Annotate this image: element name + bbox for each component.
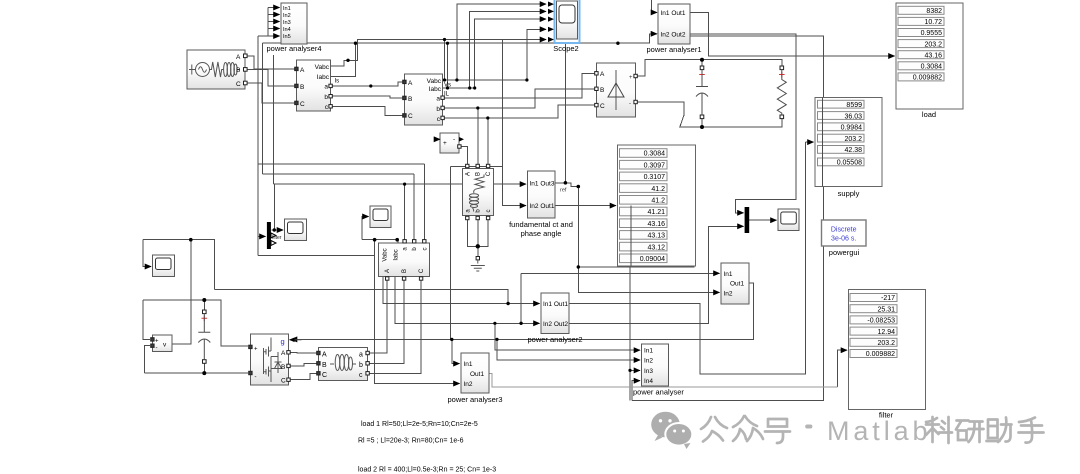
svg-text:43.12: 43.12: [647, 244, 665, 251]
mid display (10 rows): [618, 145, 696, 266]
wire fundamental Out1 to display: [555, 205, 616, 207]
svg-text:powergui: powergui: [829, 248, 860, 257]
svg-text:In1 Out1: In1 Out1: [543, 301, 568, 308]
demux filter: [267, 222, 282, 249]
svg-text:A: A: [408, 80, 413, 87]
wire pa2 Out1 to y374 line: [569, 304, 709, 375]
svg-text:In2: In2: [283, 13, 291, 19]
load display: [896, 3, 963, 119]
three-phase source: [187, 50, 247, 89]
middle dot: [807, 425, 810, 429]
wire h-line y184 to fundamental In1: [273, 183, 526, 185]
svg-text:8599: 8599: [846, 102, 862, 109]
svg-text:41.2: 41.2: [651, 198, 665, 205]
svg-text:In2 Out2: In2 Out2: [661, 32, 686, 39]
svg-text:43.16: 43.16: [647, 221, 665, 228]
power analyser1: [646, 4, 701, 54]
svg-text:Vabc: Vabc: [427, 78, 442, 85]
wire filter display feeder: [838, 350, 847, 387]
svg-text:43.13: 43.13: [647, 233, 665, 240]
three-phase V-I measurement 1: [295, 60, 339, 111]
svg-text:0.09004: 0.09004: [640, 256, 665, 263]
wire pa2 In2 line: [395, 277, 540, 323]
wire source A to meas1 A: [245, 56, 296, 69]
svg-text:b: b: [436, 106, 440, 113]
wire meas3 a riser: [404, 184, 406, 242]
svg-text:+: +: [629, 75, 633, 81]
wire vertical x565: [564, 0, 566, 183]
wire meas2 IL to Scope2 In2: [443, 11, 546, 88]
wire meas1 a (Is) to meas2 A: [332, 82, 404, 86]
wire h-line y174: [263, 173, 415, 175]
svg-text:In3: In3: [644, 368, 653, 375]
wire h-line y255: [258, 255, 375, 257]
capacitor branch (DC bus): [696, 66, 708, 119]
svg-text:In1: In1: [644, 348, 653, 355]
svg-text:41.2: 41.2: [651, 186, 665, 193]
wire igbt C to inductor C: [289, 373, 318, 379]
wire vertical x258 In5 feeder: [257, 36, 259, 256]
wire IL stub to bus: [447, 43, 449, 88]
svg-text:25.31: 25.31: [877, 306, 895, 313]
wire IL branch to Scope2 In3: [470, 19, 546, 88]
wire pa3 In2 feeder: [375, 240, 460, 384]
wire pa3 In1 feeder: [452, 339, 460, 363]
wire supply display feeder: [709, 142, 806, 374]
power analyser3: [447, 353, 502, 404]
char hao: [765, 419, 790, 443]
svg-text:3e-06 s.: 3e-06 s.: [831, 236, 856, 243]
svg-text:C: C: [236, 81, 241, 88]
powergui: [822, 220, 867, 257]
wire meas1 b to meas2 B: [332, 96, 404, 98]
wire pa4in In1 feeder: [495, 323, 640, 350]
wire subsystem In1 feeder: [521, 272, 719, 274]
three-phase V-I measurement 2: [403, 74, 451, 125]
svg-text:c: c: [359, 372, 363, 379]
svg-text:power analyser: power analyser: [633, 388, 684, 397]
power analyser (4 inputs): [633, 344, 684, 397]
wire stub In3 pa4: [268, 21, 280, 23]
svg-text:C: C: [486, 171, 492, 176]
wire cap2 bottom stub: [203, 363, 205, 373]
svg-text:Iabc: Iabc: [317, 74, 330, 81]
svg-text:0.3084: 0.3084: [921, 64, 943, 71]
three-phase series RL branch: [317, 348, 370, 381]
char zhu: [987, 418, 1012, 443]
wire demux input stub: [258, 235, 266, 237]
wire overlay across supply display: [822, 98, 824, 187]
svg-text:203.2: 203.2: [844, 136, 862, 143]
svg-text:Out1: Out1: [470, 371, 484, 378]
power analyser4: [266, 3, 321, 53]
scope4: [370, 206, 391, 228]
wire meas2 b to rectifier B: [443, 89, 596, 108]
svg-text:supply: supply: [838, 189, 860, 198]
wire cap top stub: [701, 60, 703, 66]
wire vmeas to node: [172, 240, 191, 344]
three-phase V-I measurement 3 (rotated): [379, 240, 430, 281]
svg-text:power analyser1: power analyser1: [646, 45, 701, 54]
wire igbt A to inductor A: [289, 351, 318, 354]
wire pa2 Out2 to mux in2: [569, 226, 744, 323]
svg-text:a: a: [436, 96, 440, 103]
svg-text:B: B: [402, 269, 408, 273]
svg-text:A: A: [281, 350, 286, 357]
wire vertical x268 pa4 feeder: [267, 8, 269, 37]
svg-text:In2: In2: [644, 358, 653, 365]
svg-text:ref: ref: [560, 188, 567, 194]
wire inductor c to meas3 C: [369, 280, 421, 373]
svg-text:A: A: [300, 67, 305, 74]
svg-text:In1: In1: [283, 6, 291, 12]
svg-text:Vabc: Vabc: [315, 64, 330, 71]
svg-text:43.16: 43.16: [924, 52, 942, 59]
svg-text:C: C: [322, 372, 327, 379]
svg-text:load 1 Rl=50;Ll=2e-5;Rn=10;Cn=: load 1 Rl=50;Ll=2e-5;Rn=10;Cn=2e-5: [361, 421, 478, 428]
svg-text:A: A: [465, 172, 471, 176]
power analyser2: [527, 293, 582, 344]
svg-text:load: load: [922, 110, 936, 119]
svg-text:In3: In3: [283, 20, 291, 26]
svg-text:g: g: [281, 337, 285, 346]
svg-text:+: +: [254, 347, 258, 353]
svg-text:c: c: [422, 248, 428, 251]
wire In3 pa stub: [630, 369, 640, 371]
svg-text:0.009882: 0.009882: [866, 351, 895, 358]
wire meas1 Vabc to Scope2 In5: [330, 40, 546, 67]
wire meas3 Vabc to demux bus: [362, 239, 398, 241]
supply display: [815, 98, 882, 199]
svg-text:In1 Out3: In1 Out3: [530, 180, 555, 187]
wire h-line y163: [258, 163, 424, 165]
svg-text:41.21: 41.21: [647, 209, 665, 216]
wire meas2 Vs to Scope2 In1: [443, 4, 546, 80]
svg-text:filter: filter: [272, 235, 282, 241]
wire Vs stub to bus: [444, 40, 446, 81]
wire vertical x262: [262, 43, 264, 174]
wire stub In1 pa4: [268, 7, 280, 9]
svg-text:0.3084: 0.3084: [644, 151, 666, 158]
mux (to scope3): [745, 207, 750, 233]
svg-text:A: A: [600, 71, 605, 78]
svg-text:B: B: [408, 96, 412, 103]
wire vertical x274 demux out riser: [273, 184, 275, 230]
svg-text:-: -: [453, 136, 455, 143]
wire demux out to scope5: [272, 229, 284, 231]
scope1 (left): [153, 255, 175, 277]
wire igbt B to inductor B: [289, 363, 318, 366]
wire cap2 top stub: [203, 300, 205, 310]
wire vertical x450: [450, 166, 452, 339]
wire rectifier plus to dc bus: [637, 60, 782, 76]
wire fundamental In2 feeder: [503, 40, 527, 206]
svg-text:Iabc: Iabc: [429, 86, 442, 93]
svg-text:power analyser4: power analyser4: [266, 44, 321, 53]
svg-text:IL: IL: [444, 92, 450, 98]
wire source C to meas1 C: [245, 83, 296, 103]
wire transformer b to ground bus: [477, 219, 479, 246]
svg-text:Rl =5 ; Ll=20e-3; Rn=80;Cn= 1e: Rl =5 ; Ll=20e-3; Rn=80;Cn= 1e-6: [358, 438, 464, 445]
svg-text:B: B: [322, 362, 327, 369]
char ke: [926, 417, 952, 443]
svg-text:0.05508: 0.05508: [837, 160, 862, 167]
wire bus y43 to power analyser1 In2: [263, 34, 658, 43]
capacitor 2 (DC link): [198, 310, 210, 363]
wire pa1 Out line 2 long right: [632, 36, 824, 400]
wire cap bottom stub: [701, 119, 703, 128]
svg-text:In4: In4: [283, 27, 291, 33]
svg-text:0.3107: 0.3107: [644, 174, 666, 181]
svg-text:In2: In2: [464, 381, 473, 388]
watermark wechat icon: [651, 412, 692, 449]
svg-text:-: -: [629, 101, 631, 107]
diode rectifier bridge: [595, 63, 638, 117]
wire dc bus top left: [143, 300, 248, 346]
subsystem In1 In2 Out1: [721, 263, 749, 304]
wire segment y267: [578, 191, 694, 267]
svg-text:-: -: [156, 346, 158, 352]
wire dc source to transformer A: [460, 147, 468, 166]
svg-text:B: B: [300, 84, 304, 91]
wire junction riser x521: [520, 273, 522, 323]
ground symbol: [471, 257, 485, 272]
scope3: [778, 209, 799, 231]
wire pa1 Out2 to mux: [690, 34, 796, 213]
wire display branch down x630: [629, 206, 631, 401]
svg-text:A: A: [385, 269, 391, 273]
svg-text:power analyser2: power analyser2: [527, 335, 582, 344]
svg-text:Vabc: Vabc: [383, 248, 389, 261]
svg-text:B: B: [600, 87, 604, 94]
svg-text:Iabc: Iabc: [394, 249, 400, 260]
svg-text:+: +: [155, 339, 159, 345]
wire ground stem: [477, 246, 479, 256]
svg-text:In1 Out1: In1 Out1: [661, 10, 686, 17]
wire vmeas plus feeder: [143, 300, 150, 339]
svg-text:In1: In1: [724, 271, 733, 278]
svg-text:B: B: [236, 67, 240, 74]
svg-text:phase angle: phase angle: [521, 229, 562, 238]
wire inductor b to meas3 B: [369, 280, 404, 363]
wire scope1 feeder: [143, 240, 151, 267]
svg-text:+: +: [443, 140, 447, 147]
char gong: [701, 417, 727, 442]
wire pa2 In1 line: [383, 277, 540, 304]
wire transformer B feeder: [477, 108, 479, 165]
wire transformer C feeder: [487, 118, 489, 165]
svg-text:Scope2: Scope2: [553, 44, 578, 53]
scope5: [285, 219, 307, 241]
svg-text:b: b: [324, 94, 328, 101]
wire meas3 Vabc port riser: [397, 240, 399, 243]
svg-text:C: C: [600, 103, 605, 110]
svg-text:-0.08253: -0.08253: [867, 318, 895, 325]
svg-text:0.3097: 0.3097: [644, 162, 666, 169]
wire meas1 c to meas2 C: [332, 106, 404, 115]
wire In4 pa stub: [632, 381, 640, 401]
svg-text:C: C: [408, 113, 413, 120]
svg-text:203.2: 203.2: [877, 340, 895, 347]
svg-text:-: -: [255, 375, 257, 381]
svg-text:In4: In4: [644, 378, 653, 385]
svg-text:0.9984: 0.9984: [841, 125, 863, 132]
svg-text:In1: In1: [464, 361, 473, 368]
filter display: [849, 290, 926, 420]
svg-text:Vs: Vs: [444, 83, 451, 89]
wire transformer abc to ground bus: [467, 219, 488, 246]
wire meas3 c riser: [423, 164, 425, 242]
fundamental ct and phase angle: [509, 171, 573, 238]
wire overlay across mid display: [630, 206, 632, 266]
svg-text:a: a: [359, 352, 363, 359]
wire meas1 Iabc riser: [309, 43, 356, 76]
wire meas3 b riser: [413, 174, 415, 242]
wire stub In2 pa4: [268, 14, 280, 16]
wire pa1 In1 feeder: [652, 0, 657, 12]
wire stub In4 pa4: [268, 28, 280, 30]
svg-text:Discrete: Discrete: [831, 227, 857, 234]
svg-text:A: A: [322, 352, 327, 359]
wire mux to scope3: [749, 219, 777, 221]
resistor branch (load R): [777, 66, 786, 119]
svg-text:b: b: [359, 362, 363, 369]
svg-text:In2 Out1: In2 Out1: [530, 203, 555, 210]
svg-text:C: C: [300, 101, 305, 108]
voltage measurement: [151, 335, 172, 352]
svg-text:a: a: [324, 84, 328, 91]
wire inductor a to meas3 A: [369, 280, 387, 353]
svg-text:36.03: 36.03: [844, 113, 862, 120]
svg-text:fundamental ct and: fundamental ct and: [509, 220, 573, 229]
wire rectifier minus to bottom bus: [637, 102, 782, 127]
wire pa4in In2 feeder: [497, 339, 640, 360]
svg-text:load 2 Rl = 400;Ll=0.5e-3;Rn =: load 2 Rl = 400;Ll=0.5e-3;Rn = 25; Cn= 1…: [358, 467, 496, 474]
svg-text:8382: 8382: [926, 8, 942, 15]
svg-text:10.72: 10.72: [924, 19, 942, 26]
svg-text:A: A: [236, 54, 241, 61]
svg-text:In5: In5: [283, 34, 291, 40]
char yan: [956, 421, 984, 443]
svg-text:C: C: [281, 378, 286, 385]
wire vmeas minus feeder: [145, 346, 150, 373]
wire gate drive long: [291, 283, 753, 339]
watermark text (CJK strokes drawn as paths): [701, 416, 810, 443]
svg-text:0.009882: 0.009882: [913, 75, 942, 82]
svg-text:C: C: [419, 268, 425, 273]
wire h-line y289: [214, 290, 508, 304]
svg-text:Matlab: Matlab: [827, 416, 931, 446]
svg-text:12.94: 12.94: [877, 329, 895, 336]
wire Vs branch to Scope2 In4: [457, 29, 546, 80]
wire stub In5 power analyser4: [258, 35, 280, 37]
wire pa1 Out1 to load display: [690, 12, 895, 56]
svg-text:In2 Out2: In2 Out2: [543, 321, 568, 328]
wire meas2 c to rectifier C: [443, 105, 596, 118]
svg-text:Is: Is: [335, 79, 340, 85]
svg-text:Out1: Out1: [730, 281, 744, 288]
svg-text:B: B: [281, 364, 285, 371]
wire meas2 a to rectifier A: [443, 73, 596, 98]
svg-text:0.9555: 0.9555: [921, 30, 943, 37]
svg-text:-217: -217: [881, 295, 895, 302]
char shou: [1019, 418, 1044, 443]
svg-text:c: c: [486, 210, 492, 213]
wire source B to meas1 B: [245, 70, 296, 87]
wire vertical x273: [272, 55, 274, 184]
svg-text:203.2: 203.2: [924, 41, 942, 48]
svg-text:In2: In2: [724, 291, 733, 298]
three-phase transformer (rotated): [463, 164, 494, 219]
wire scope1 top line: [143, 240, 214, 290]
wire segment y166: [451, 165, 503, 167]
wire pa3 Out1 to gray bus: [489, 374, 838, 388]
svg-text:power analyser3: power analyser3: [447, 395, 502, 404]
wire dc bus bottom: [145, 372, 248, 374]
char zhong: [733, 416, 763, 441]
wire scope4 feeder: [362, 217, 369, 240]
wire fundamental Out3 ref to subsystem In2: [555, 183, 720, 293]
IGBT inverter bridge: [249, 334, 302, 385]
svg-text:B: B: [476, 172, 482, 176]
dc voltage source small: [436, 133, 464, 153]
svg-text:42.38: 42.38: [844, 147, 862, 154]
Scope2 (selected, blue frame): [548, 0, 580, 53]
